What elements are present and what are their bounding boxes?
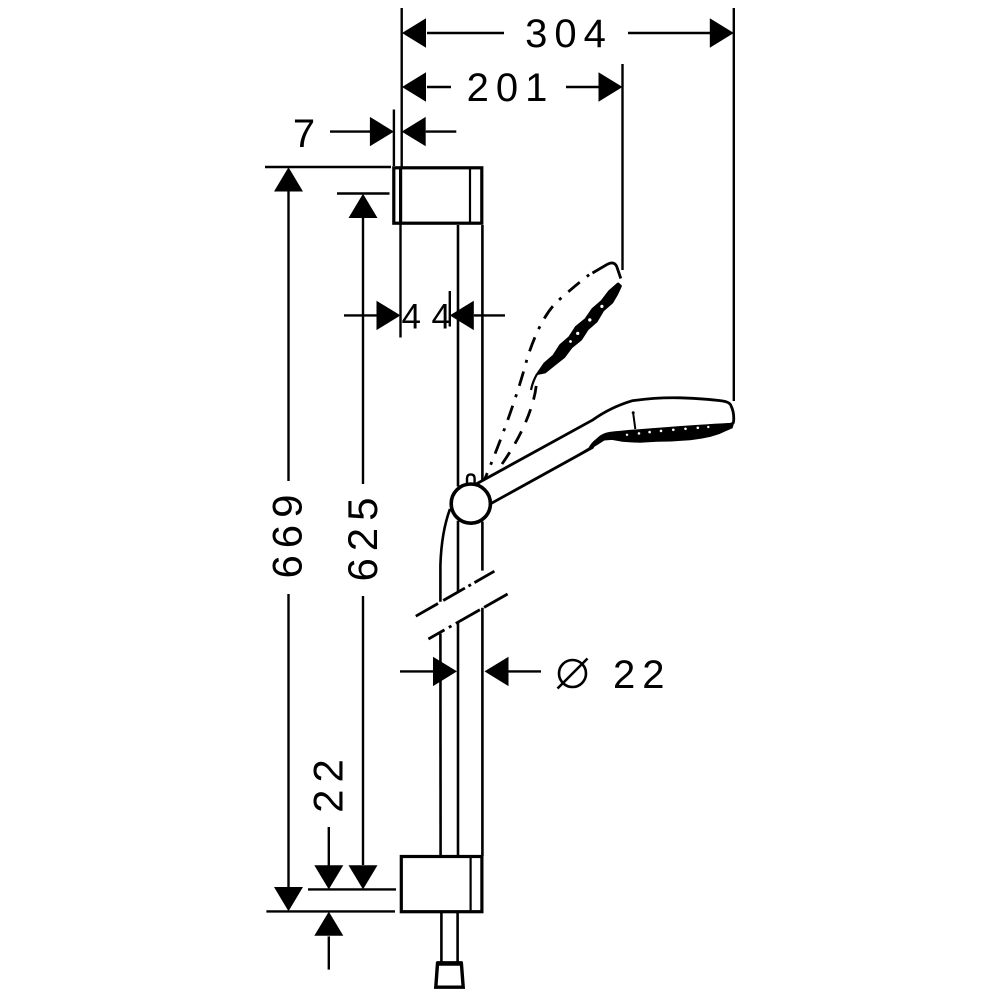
svg-text:22: 22: [613, 653, 672, 697]
dashed handshower: right dashed curve: [502, 377, 537, 464]
201 extension line: [621, 64, 623, 270]
dim 44 arrow pointing right: [377, 301, 401, 330]
slider knob: [467, 474, 475, 488]
bar left edge: [457, 225, 460, 487]
solid head strip speckles: [626, 426, 710, 436]
dim 625 arrow up: [349, 194, 378, 218]
dim 7 line right tail: [426, 130, 457, 132]
svg-text:7: 7: [293, 112, 315, 156]
dashed handshower upper position: left dashed curve: [482, 273, 593, 488]
break mark lower: [428, 594, 507, 639]
hose below bottom bracket right: [456, 912, 459, 963]
dim 304 line: [427, 32, 504, 34]
svg-text:44: 44: [402, 298, 462, 337]
bracket inner line: [469, 168, 471, 223]
svg-text:22: 22: [305, 752, 352, 813]
dim 7 arrow pointing left: [402, 117, 426, 146]
dim Ø22 right tail: [509, 670, 542, 672]
dim 625 vertical line: [362, 218, 364, 484]
7-dim left extension line (x=393.9): [393, 110, 395, 167]
dim 669 vertical line: [287, 191, 289, 481]
bar right edge: [481, 225, 484, 486]
dim Ø22 arrow pointing right: [433, 657, 457, 686]
304 extension line: [733, 8, 735, 401]
hose below bottom bracket left: [440, 912, 443, 963]
dim 304 arrow left: [402, 18, 426, 47]
dim 7 line left tail: [330, 130, 371, 132]
svg-text:669: 669: [264, 487, 311, 578]
dim Ø22 left tail: [400, 670, 434, 672]
dim 625 arrow down: [349, 865, 378, 889]
dim 669 bottom extension line: [266, 910, 395, 912]
dashed head spray face strip: [538, 284, 621, 374]
dim 22 arrow up (tip at 911.4): [314, 912, 343, 936]
top wall bracket: [394, 168, 482, 223]
slider circle: [451, 484, 490, 523]
svg-text:625: 625: [339, 490, 386, 581]
dim 44 left tail: [344, 314, 378, 316]
svg-text:304: 304: [525, 12, 613, 56]
dim 304 arrow right: [710, 18, 734, 47]
break mark upper: [416, 571, 495, 616]
44-dim extension line: [449, 291, 451, 327]
dim 201 line: [427, 86, 451, 88]
dim 669 top extension line: [265, 166, 391, 168]
dim 669 arrow up: [274, 167, 303, 191]
dim 44 arrow pointing left: [450, 301, 474, 330]
wall plate line: [399, 168, 402, 223]
dim 201 arrow left: [402, 72, 426, 101]
dashed head strip speckles: [569, 305, 603, 343]
dim 625 bottom extension line: [308, 888, 396, 890]
solid handshower body: [468, 398, 734, 514]
wall extension line (x=401.7 upper): [401, 8, 403, 167]
svg-text:201: 201: [467, 66, 555, 110]
dim 22 vertical line below: [328, 936, 330, 969]
solid head top detail line: [633, 414, 635, 429]
hose left edge lower: [439, 634, 442, 856]
dashed head bottom tail: [531, 374, 537, 390]
dim 22 vertical line above: [328, 827, 330, 866]
dim 22 arrow down (tip at 889.6): [314, 865, 343, 889]
dim Ø22 arrow pointing left: [485, 657, 509, 686]
bracket inner line: [470, 857, 472, 911]
text Ø 22: [559, 660, 586, 687]
dim 44 right tail: [474, 314, 505, 316]
dim 7 arrow pointing right: [370, 117, 394, 146]
hose end cone: [436, 963, 463, 987]
solid head spray face strip: [578, 424, 733, 455]
dim 625 top extension line: [337, 192, 390, 194]
hose left edge curve from slider: [440, 509, 450, 602]
bottom wall bracket: [401, 857, 482, 912]
dashed head corner solid piece: [593, 263, 621, 279]
wall extension line below bracket: [399, 224, 401, 338]
dim 201 arrow right: [599, 72, 623, 101]
slide bar: [458, 225, 482, 856]
dim 669 arrow down: [274, 887, 303, 911]
